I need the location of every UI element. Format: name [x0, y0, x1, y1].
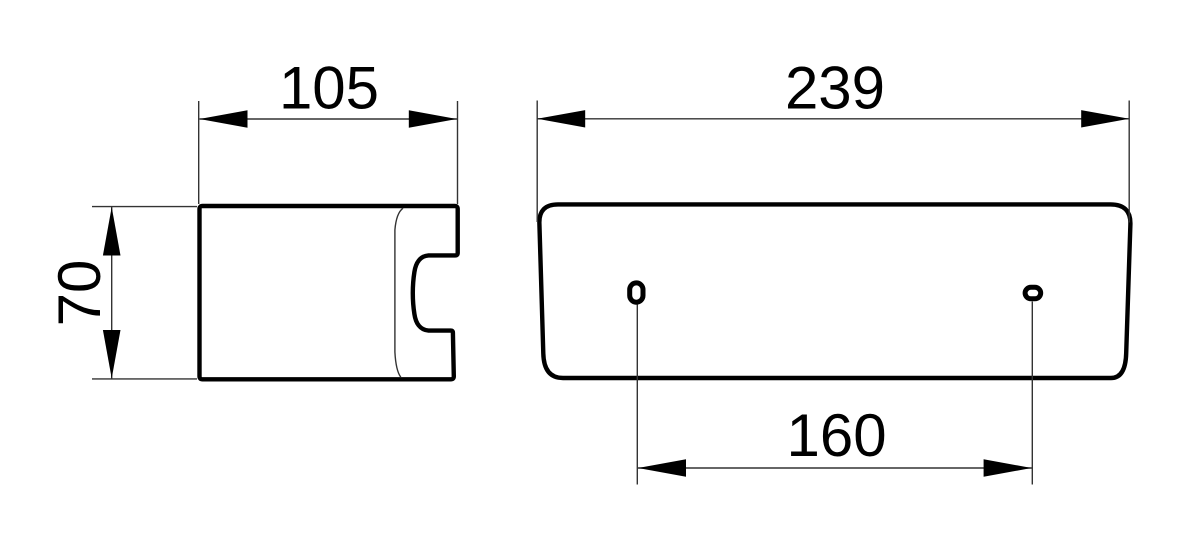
dimension 70: top extension line [92, 206, 197, 208]
dimension 70: bottom arrowhead [103, 330, 121, 378]
dimension 239: left arrowhead [537, 110, 585, 127]
dimension 70: top arrowhead [103, 207, 121, 255]
side view tangent (thin inner contour) line [395, 208, 403, 377]
dimension 160: left arrowhead [638, 459, 686, 476]
dimension 239: dimension line [537, 118, 1129, 120]
svg-text:105: 105 [279, 54, 379, 121]
side view outline (left view, 105 x 70 profile with rear notch) [200, 206, 458, 379]
dimension 239: right extension line [1128, 101, 1130, 223]
svg-text:160: 160 [787, 402, 887, 469]
dimension 239: left extension line [536, 101, 538, 223]
front view: left slot hole [630, 283, 643, 302]
front view: right slot hole [1025, 287, 1041, 299]
svg-text:70: 70 [46, 260, 113, 327]
dimension 160: right leader line from right hole [1031, 302, 1033, 485]
dimension 105: left extension line [198, 101, 200, 204]
dimension 160: right arrowhead [984, 459, 1032, 476]
dimension 160: dimension line [637, 467, 1032, 469]
dimension 70: dimension line [111, 207, 113, 379]
dimension 160: left leader line from left hole [636, 305, 638, 485]
dimension 105: right arrowhead [409, 110, 457, 127]
dimension 105: right extension line [457, 101, 459, 204]
dimension 239: right arrowhead [1081, 110, 1129, 127]
svg-text:239: 239 [785, 55, 885, 122]
dimension 105: dimension line [200, 118, 458, 120]
front view outline (right view, 239 wide plate) [539, 204, 1130, 378]
dimension 70: bottom extension line [92, 378, 197, 380]
dimension 105: left arrowhead [200, 110, 248, 127]
